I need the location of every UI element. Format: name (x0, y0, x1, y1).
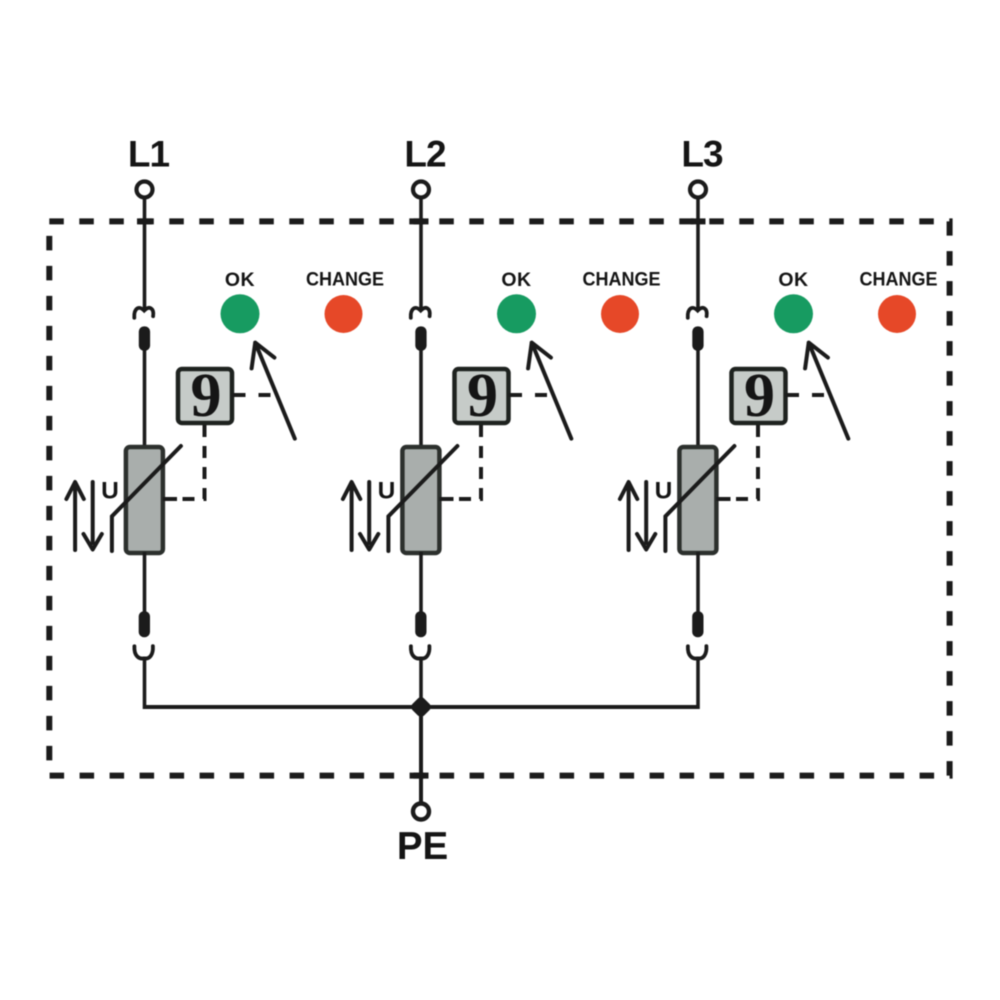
svg-text:PE: PE (397, 825, 448, 868)
OK green LED (phase L3) (774, 294, 813, 333)
voltage down arrow (phase L1) (84, 482, 102, 550)
thermal sensor U1 right stub (232, 393, 246, 397)
svg-text:9: 9 (467, 362, 498, 430)
wire varistor RV1 to lower disconnect (143, 552, 147, 612)
CHANGE red LED (phase L1) (325, 295, 363, 333)
PE bus wire (145, 705, 699, 709)
CHANGE red LED (phase L2) (601, 295, 639, 333)
svg-text:L1: L1 (128, 134, 170, 175)
svg-text:L3: L3 (681, 134, 723, 175)
svg-text:9: 9 (191, 362, 222, 430)
wire disconnect to varistor RV3 (696, 350, 700, 448)
border dash at L1 wire crossing (137, 218, 152, 224)
voltage up arrow (phase L1) (66, 482, 83, 550)
OK green LED (phase L1) (221, 294, 260, 333)
dash link sensor U2 to indicator actuator (535, 393, 547, 397)
indicator actuator arrow (phase L2) (528, 343, 571, 439)
wire disconnect to varistor RV2 (419, 350, 423, 448)
wire lower disconnect to PE bus (phase L2) (419, 657, 423, 710)
mechanical linkage dashed (varistor to thermal sensor U2) (454, 425, 481, 499)
OK green LED (phase L2) (497, 294, 536, 333)
thermal disconnect F2 upper contact arc (411, 308, 430, 318)
thermal sensor U2 right stub (509, 393, 523, 397)
indicator actuator arrow (phase L3) (805, 343, 848, 439)
terminal L1 circle (137, 182, 153, 198)
svg-text:U: U (655, 478, 673, 505)
svg-text:U: U (101, 478, 119, 505)
wire L3 terminal to disconnect (696, 198, 700, 310)
voltage down arrow (phase L3) (637, 482, 655, 550)
thermal sensor U1 box (178, 369, 232, 423)
svg-text:CHANGE: CHANGE (860, 269, 938, 291)
varistor RV1 body (126, 447, 163, 553)
CHANGE red LED (phase L3) (878, 295, 916, 333)
wire L2 terminal to disconnect (419, 198, 423, 310)
bus junction node (409, 695, 432, 718)
dash link sensor U3 to indicator actuator (812, 393, 824, 397)
svg-text:OK: OK (501, 269, 531, 291)
svg-text:U: U (378, 478, 396, 505)
border dash at L2 wire crossing (414, 218, 429, 224)
thermal sensor U3 box (732, 369, 786, 423)
mechanical linkage dashed (varistor to thermal sensor U1) (178, 425, 205, 499)
thermal disconnect F3 upper contact arc (688, 308, 707, 318)
varistor RV1 right stub (163, 497, 177, 501)
wire disconnect to varistor RV1 (143, 350, 147, 448)
lower disconnect contact bar (phase L2) (415, 611, 426, 637)
lower disconnect contact arc (phase L1) (134, 646, 153, 658)
svg-text:OK: OK (225, 269, 255, 291)
svg-text:OK: OK (778, 269, 808, 291)
wire varistor RV3 to lower disconnect (696, 552, 700, 612)
svg-text:9: 9 (744, 362, 775, 430)
wire L1 terminal to disconnect (143, 198, 147, 310)
thermal sensor U2 box (455, 369, 509, 423)
lower disconnect contact arc (phase L2) (411, 646, 430, 658)
svg-text:CHANGE: CHANGE (583, 269, 661, 291)
wire bus to PE terminal (419, 707, 423, 802)
thermal sensor U3 right stub (786, 393, 800, 397)
varistor RV2 body (402, 447, 439, 553)
varistor RV3 body (679, 447, 716, 553)
lower disconnect contact bar (phase L3) (692, 611, 703, 637)
border dash at PE wire crossing (414, 773, 429, 779)
voltage up arrow (phase L3) (620, 482, 637, 550)
thermal disconnect F3 upper contact bar (692, 326, 703, 350)
terminal L2 circle (413, 182, 429, 198)
varistor RV3 right stub (716, 497, 730, 501)
lower disconnect contact arc (phase L3) (688, 646, 707, 658)
wire varistor RV2 to lower disconnect (419, 552, 423, 612)
border dash at L3 wire crossing (691, 218, 706, 224)
PE terminal circle (413, 804, 429, 820)
dash link sensor U1 to indicator actuator (259, 393, 271, 397)
varistor RV3 diagonal stroke (665, 446, 734, 551)
svg-text:CHANGE: CHANGE (306, 269, 384, 291)
thermal disconnect F2 upper contact bar (415, 326, 426, 350)
varistor RV2 right stub (439, 497, 453, 501)
voltage down arrow (phase L2) (360, 482, 378, 550)
device enclosure dashed border (49, 221, 949, 775)
wire lower disconnect to PE bus (phase L3) (696, 657, 700, 710)
svg-text:L2: L2 (404, 134, 446, 175)
thermal disconnect F1 upper contact arc (134, 308, 153, 318)
wire lower disconnect to PE bus (phase L1) (143, 657, 147, 710)
lower disconnect contact bar (phase L1) (139, 611, 150, 637)
varistor RV1 diagonal stroke (112, 446, 181, 551)
varistor RV2 diagonal stroke (388, 446, 457, 551)
indicator actuator arrow (phase L1) (252, 343, 295, 439)
voltage up arrow (phase L2) (343, 482, 360, 550)
thermal disconnect F1 upper contact bar (139, 326, 150, 350)
terminal L3 circle (690, 182, 706, 198)
mechanical linkage dashed (varistor to thermal sensor U3) (731, 425, 758, 499)
